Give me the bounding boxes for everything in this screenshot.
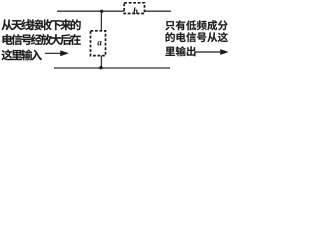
svg-text:a: a	[97, 37, 102, 47]
svg-text:b: b	[133, 6, 138, 17]
